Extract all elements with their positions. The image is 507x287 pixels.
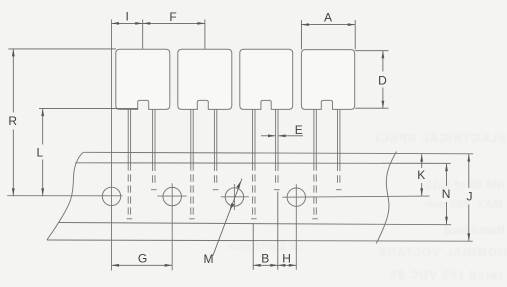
- left break curve: [47, 152, 83, 240]
- svg-text:F: F: [169, 10, 176, 24]
- svg-text:NM 45 of 1018: NM 45 of 1018: [425, 178, 505, 192]
- svg-text:I: I: [126, 10, 129, 24]
- svg-text:rated 100 VDC 85: rated 100 VDC 85: [389, 268, 503, 282]
- hole1 + I/G extension (long): [111, 20, 113, 271]
- lead 1L end tick: [127, 218, 133, 220]
- lead 1R solid: [152, 109, 154, 163]
- dim I/F extension: component1 center: [142, 20, 144, 49]
- svg-text:MAX. 700 mm: MAX. 700 mm: [425, 197, 503, 211]
- dim line R: [12, 49, 14, 113]
- svg-text:L: L: [36, 145, 43, 159]
- tape bottom edge: [47, 240, 473, 241]
- faint bleed-through watermark text: [227, 131, 507, 282]
- lead 2R end tick: [213, 189, 219, 191]
- dim line D: [382, 51, 384, 72]
- lead 3L end tick: [251, 218, 257, 220]
- sprocket hole S1: [102, 187, 120, 205]
- right break curve: [376, 152, 396, 244]
- dim line F: [143, 22, 205, 24]
- dim M leader (hole diameter): [213, 179, 242, 256]
- component box 4: [301, 50, 354, 110]
- hole3 vertical mark: [233, 184, 235, 210]
- dim N: [446, 164, 448, 186]
- lead 4L hidden: [313, 163, 315, 214]
- adhesive tape top line: [75, 162, 451, 165]
- dim B extensions: [252, 224, 254, 270]
- svg-text:M: M: [204, 252, 214, 266]
- inner bottom line: [59, 223, 451, 225]
- dim line G: [112, 264, 173, 266]
- hole centerline: [7, 196, 429, 198]
- svg-text:Rated load: Rated load: [444, 223, 505, 237]
- lead 2L solid: [190, 109, 192, 163]
- lead 4R hidden: [337, 163, 339, 186]
- svg-text:R: R: [8, 114, 17, 128]
- svg-text:E: E: [295, 123, 303, 137]
- dim I/F extension: component2 center: [204, 20, 206, 49]
- tape top edge: [83, 152, 473, 154]
- component box 3: [240, 49, 293, 109]
- sprocket hole S2: [163, 187, 181, 205]
- dim line L: [42, 109, 44, 145]
- dim J: [468, 154, 470, 188]
- lead 3R solid: [275, 109, 277, 163]
- lead 2R solid: [213, 109, 215, 163]
- svg-text:A: A: [324, 11, 332, 25]
- svg-text:K: K: [417, 168, 425, 182]
- lead 3R end tick: [274, 189, 280, 191]
- component box 1: [116, 49, 170, 109]
- dim line B: [253, 264, 278, 266]
- lead 4R end tick: [336, 189, 342, 191]
- dim line A: [301, 24, 355, 26]
- svg-text:D: D: [378, 73, 387, 87]
- lead 1R end tick: [151, 189, 157, 191]
- dim D extensions: [355, 50, 388, 52]
- svg-text:J: J: [467, 190, 473, 204]
- lead 4R solid: [337, 109, 339, 163]
- lead 4L solid: [313, 109, 315, 163]
- svg-text:B: B: [261, 252, 269, 266]
- lead 3L hidden: [252, 163, 254, 214]
- lead 2L end tick: [189, 218, 195, 220]
- dim K: [421, 154, 423, 168]
- lead 1L hidden: [127, 163, 129, 214]
- dim E (lead diameter): [261, 135, 276, 137]
- component box 2: [178, 49, 232, 109]
- dim A extensions: [300, 20, 302, 49]
- sprocket hole S4: [287, 188, 305, 206]
- lead 3R hidden: [275, 163, 277, 186]
- lead 2R hidden: [213, 163, 215, 186]
- M leader arrowheads: [230, 181, 241, 211]
- lead 4L end tick: [312, 218, 318, 220]
- lead 2L hidden: [190, 163, 192, 214]
- hole vertical center marks / extension lines: [112, 20, 297, 271]
- hole4 mark + H extension: [295, 184, 297, 270]
- dim line H: [278, 264, 297, 266]
- dim L extension (bottom of component): [39, 108, 138, 110]
- lead 1R hidden: [152, 163, 154, 186]
- svg-text:G: G: [138, 252, 147, 266]
- sprocket hole S3: [225, 188, 243, 206]
- dim line I: [112, 22, 143, 24]
- lead 1L solid: [127, 109, 129, 163]
- svg-text:ELECTRICAL SPECI: ELECTRICAL SPECI: [375, 131, 506, 145]
- lead 3L solid: [252, 109, 254, 163]
- svg-text:H: H: [282, 252, 291, 266]
- svg-text:N: N: [442, 187, 451, 201]
- hole2 mark + G extension: [171, 183, 173, 270]
- svg-text:NOMINAL VOLTAGE: NOMINAL VOLTAGE: [377, 245, 507, 259]
- dim R extension (top of component): [8, 48, 116, 50]
